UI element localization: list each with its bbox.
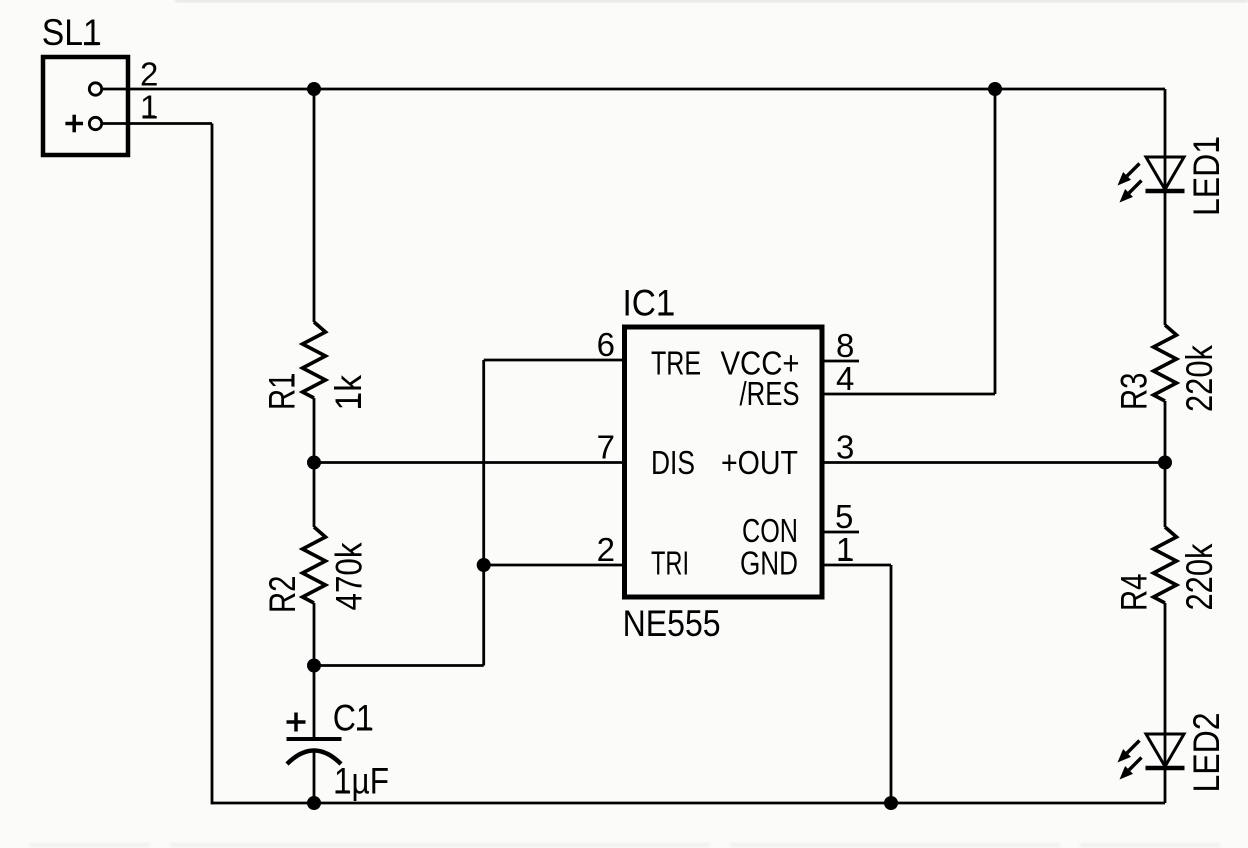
svg-text:TRI: TRI xyxy=(651,545,689,582)
svg-text:470k: 470k xyxy=(329,542,370,610)
svg-text:R2: R2 xyxy=(262,576,303,614)
svg-text:SL1: SL1 xyxy=(42,12,102,53)
svg-text:GND: GND xyxy=(740,545,798,582)
svg-text:2: 2 xyxy=(597,531,615,568)
svg-text:1µF: 1µF xyxy=(334,761,389,802)
svg-text:220k: 220k xyxy=(1179,543,1220,610)
svg-text:TRE: TRE xyxy=(651,345,701,382)
svg-text:2: 2 xyxy=(140,56,158,93)
svg-text:+OUT: +OUT xyxy=(721,444,798,481)
svg-text:1k: 1k xyxy=(328,375,369,411)
svg-text:IC1: IC1 xyxy=(623,283,675,324)
svg-text:7: 7 xyxy=(597,429,615,466)
svg-text:DIS: DIS xyxy=(651,444,695,481)
svg-text:R3: R3 xyxy=(1114,373,1155,411)
svg-text:NE555: NE555 xyxy=(623,603,721,644)
svg-text:C1: C1 xyxy=(333,698,374,739)
svg-text:1: 1 xyxy=(836,531,854,568)
svg-text:R1: R1 xyxy=(262,373,303,411)
svg-text:3: 3 xyxy=(836,429,854,466)
svg-text:220k: 220k xyxy=(1179,345,1220,412)
svg-text:5: 5 xyxy=(835,498,853,535)
svg-text:6: 6 xyxy=(597,326,615,363)
svg-text:4: 4 xyxy=(836,360,854,397)
svg-text:1: 1 xyxy=(140,89,158,126)
svg-text:CON: CON xyxy=(742,512,798,549)
svg-text:/RES: /RES xyxy=(740,375,800,412)
svg-text:R4: R4 xyxy=(1114,574,1155,612)
svg-text:LED1: LED1 xyxy=(1186,136,1227,216)
svg-text:LED2: LED2 xyxy=(1186,713,1227,793)
svg-text:8: 8 xyxy=(836,327,854,364)
